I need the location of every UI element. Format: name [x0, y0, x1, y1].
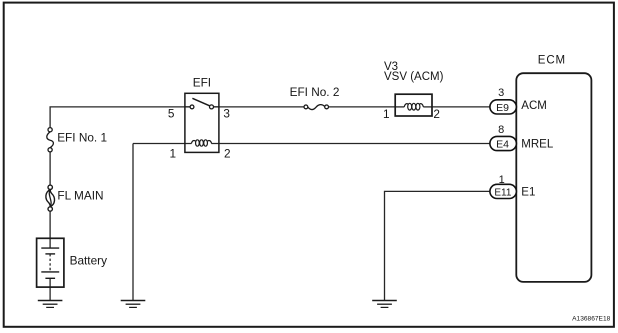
- svg-text:EFI No. 2: EFI No. 2: [290, 85, 340, 99]
- svg-text:Battery: Battery: [70, 253, 107, 267]
- svg-text:2: 2: [224, 147, 231, 161]
- svg-text:8: 8: [498, 124, 504, 136]
- svg-text:ACM: ACM: [521, 100, 547, 112]
- svg-text:1: 1: [170, 147, 177, 161]
- svg-text:E1: E1: [521, 186, 535, 198]
- svg-text:E11: E11: [494, 187, 511, 198]
- svg-text:E4: E4: [496, 138, 509, 150]
- svg-text:2: 2: [433, 107, 440, 121]
- svg-text:ECM: ECM: [538, 54, 566, 66]
- svg-text:3: 3: [498, 87, 504, 99]
- svg-text:3: 3: [223, 107, 230, 121]
- svg-text:MREL: MREL: [521, 138, 554, 150]
- svg-text:1: 1: [383, 107, 390, 121]
- svg-text:EFI No. 1: EFI No. 1: [57, 131, 107, 145]
- svg-text:5: 5: [168, 107, 175, 121]
- svg-text:1: 1: [499, 174, 505, 186]
- svg-text:E9: E9: [496, 102, 509, 114]
- svg-text:EFI: EFI: [193, 75, 211, 89]
- svg-text:A136867E18: A136867E18: [572, 316, 610, 323]
- svg-text:VSV (ACM): VSV (ACM): [384, 71, 444, 83]
- svg-text:FL MAIN: FL MAIN: [57, 189, 103, 203]
